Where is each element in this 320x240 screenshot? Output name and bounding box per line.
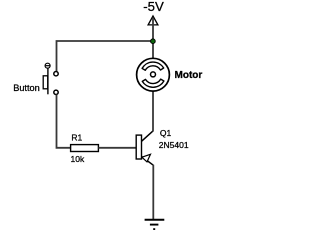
ground bar 1 [145,219,165,221]
wire collector to motor [152,91,154,131]
svg-text:-5V: -5V [143,0,164,14]
svg-text:10k: 10k [71,154,85,164]
motor shaft circle [151,72,156,77]
resistor R1 [71,145,99,152]
svg-text:Motor: Motor [175,70,203,81]
wire power to junction [152,18,154,41]
svg-text:2N5401: 2N5401 [159,140,189,150]
wire button to resistor [57,95,71,148]
svg-text:Q1: Q1 [160,128,172,138]
transistor Q1 emitter line [142,157,154,166]
transistor Q1 emitter arrow (PNP) [142,154,151,162]
ground bar 3 [153,228,155,230]
ground bar 2 [150,224,159,226]
junction node [151,39,156,44]
wire top horizontal and left drop to button [57,41,154,71]
wire junction to motor [152,41,154,59]
svg-text:R1: R1 [71,133,82,143]
transistor Q1 collector line [142,131,154,141]
svg-text:Button: Button [13,83,40,93]
motor bottom brush arc [142,79,164,87]
wire emitter to ground [152,165,154,220]
motor top brush arc [142,62,164,70]
wire resistor to transistor base [98,147,136,149]
transistor Q1 base bar [136,135,141,159]
motor M1 body [137,58,170,91]
power pin arrow -5V [148,16,158,25]
button S1 [43,63,58,94]
